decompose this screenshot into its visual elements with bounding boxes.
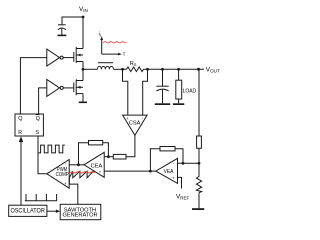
ground (input cap) — [58, 35, 67, 37]
svg-text:VEA: VEA — [164, 169, 174, 175]
resistor R3 (CSA to CEA, box) — [113, 154, 126, 159]
ground (load) — [173, 103, 184, 105]
wire VOUT down to divider R5 — [198, 69, 200, 136]
wire CSA output down and left — [126, 135, 135, 156]
node VOUT corner dot — [197, 68, 200, 71]
transistor Q1 (high-side NMOS) — [74, 47, 83, 63]
iL waveform axis horizontal with arrow — [102, 53, 120, 55]
node CEA output dot — [77, 163, 80, 166]
capacitor CIN top plate — [58, 24, 66, 26]
inverter U2 output bubble — [60, 86, 63, 89]
node VREF label — [176, 194, 190, 201]
svg-text:R: R — [18, 130, 22, 136]
node VIN junction dot — [82, 16, 85, 19]
CEA feedback right leg — [103, 143, 109, 157]
node switch-node dot — [82, 68, 85, 71]
iL red ripple waveform — [103, 42, 126, 43]
svg-text:VREF: VREF — [176, 194, 190, 201]
ground (Q2 source) — [79, 102, 87, 104]
wire Q top to inverter U1 input — [20, 58, 46, 114]
svg-text:LOAD: LOAD — [183, 88, 197, 94]
svg-text:S: S — [36, 130, 40, 136]
resistor RS (sense, zigzag) — [127, 67, 144, 72]
node VOUT label — [206, 66, 220, 73]
svg-text:CSA: CSA — [129, 121, 141, 127]
svg-text:Q: Q — [18, 116, 22, 122]
flip-flop Qbar overbar — [36, 114, 40, 116]
wire U2 bubble to Q2 gate — [63, 87, 74, 89]
svg-text:CEA: CEA — [91, 163, 103, 169]
iL waveform axis vertical with arrow — [101, 39, 103, 54]
transistor Q2 (low-side NMOS) — [74, 79, 83, 95]
wire PWM plus to sawtooth generator — [69, 178, 78, 205]
wire RS left to CSA plus input — [123, 69, 128, 115]
inverter U2 (low-side driver) — [47, 79, 60, 96]
VEA feedback right leg — [175, 149, 183, 164]
wire Q2 source to ground — [82, 94, 84, 102]
wire cap to ground — [61, 29, 63, 35]
CEA feedback left leg — [79, 143, 89, 165]
inductor L1 — [97, 66, 113, 69]
wire U1 bubble to Q1 gate — [63, 57, 74, 59]
wire Q1 source to switch node — [82, 62, 84, 70]
wire RS right to CSA minus input — [143, 69, 148, 115]
wire inductor to RS — [113, 68, 126, 70]
capacitor COUT top plate — [156, 85, 168, 87]
resistor R6 (lower divider, zigzag) — [196, 176, 201, 193]
ground (divider) — [192, 208, 204, 210]
wire CEA plus input line to VEA output — [104, 170, 156, 172]
inverter U1 (high-side driver) — [47, 49, 60, 66]
inverter U1 output bubble — [60, 56, 63, 59]
wire load branch — [178, 69, 180, 80]
wire load to ground — [178, 99, 180, 103]
wire VIN to input cap — [62, 17, 83, 25]
wire R6 to ground — [198, 193, 200, 209]
op-amp PWM comparator — [47, 160, 69, 189]
wire switch node to inductor — [83, 68, 97, 70]
node VIN label — [79, 6, 88, 13]
load label — [183, 88, 197, 94]
node CEA minus junction dot — [107, 155, 110, 158]
iL label — [99, 32, 102, 38]
sawtooth generator label — [63, 208, 98, 219]
wire VIN rail down to Q1 drain — [82, 17, 84, 49]
sawtooth generator box — [60, 204, 101, 219]
square wave glyph at S wire — [39, 145, 65, 153]
node VEA output junction dot — [149, 170, 152, 173]
wire Q2 drain to switch node — [82, 69, 84, 80]
op-amp CEA (current error amplifier) — [84, 152, 104, 177]
capacitor COUT branch wire — [162, 69, 164, 86]
wire oscillator to sawtooth generator with arrow — [47, 210, 58, 212]
node divider tap dot — [198, 162, 201, 165]
resistor R5 (upper divider, box) — [197, 136, 202, 148]
load box — [176, 80, 182, 99]
svg-text:GENERATOR: GENERATOR — [63, 213, 98, 219]
VEA feedback left leg — [150, 149, 160, 171]
node VEA minus dot — [182, 162, 185, 165]
wire CEA output to PWM minus — [69, 164, 84, 166]
t label — [123, 51, 125, 57]
resistor RS label — [130, 61, 137, 67]
node L-RS junction dot — [121, 68, 124, 71]
inductor L1 core bar — [98, 62, 113, 64]
red error-voltage ripple line — [69, 172, 96, 173]
wire RS to output node — [144, 68, 205, 70]
svg-text:COMP: COMP — [56, 172, 69, 178]
resistor R2 (CEA feedback, box) — [89, 141, 103, 145]
capacitor COUT curved plate — [156, 89, 168, 91]
oscillator label — [11, 208, 46, 214]
wire R3 to CEA minus node — [104, 156, 113, 158]
ground (COUT) — [155, 103, 170, 105]
wire VEA minus input — [178, 162, 200, 164]
flip-flop U3 (RS latch) box — [15, 114, 43, 136]
op-amp CSA (current sense amplifier) — [123, 115, 148, 135]
svg-text:OSCILLATOR: OSCILLATOR — [11, 208, 46, 214]
svg-text:Q: Q — [36, 116, 40, 122]
oscillator clock comb waveform — [25, 194, 57, 201]
wire oscillator to R input with arrow — [20, 141, 22, 205]
sawtooth waveform (black) at PWM plus input — [69, 171, 93, 178]
wire PWM output to S input — [38, 136, 47, 174]
resistor R4 (VEA feedback, box) — [160, 147, 175, 151]
wire VEA plus to VREF — [178, 177, 182, 188]
node RS-right junction dot — [146, 68, 149, 71]
wire R5 to tap — [198, 148, 200, 175]
node load branch dot — [177, 68, 180, 71]
wire Qbar top to inverter U2 input — [39, 88, 47, 114]
op-amp VEA (voltage error amplifier) — [156, 158, 178, 183]
node cap branch dot — [161, 68, 164, 71]
svg-text:RS: RS — [130, 61, 137, 67]
oscillator box — [9, 205, 47, 216]
wire COUT to ground — [162, 90, 164, 104]
capacitor CIN curved plate — [58, 28, 66, 30]
